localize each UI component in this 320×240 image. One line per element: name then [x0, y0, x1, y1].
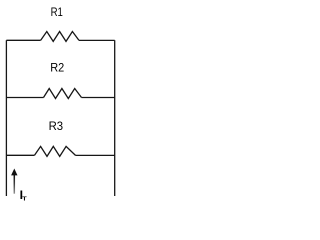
svg-text:R3: R3	[49, 119, 64, 133]
wire: right vertical bus	[114, 40, 116, 196]
wire: R2 left lead	[6, 97, 43, 99]
current arrow IT (points up)	[11, 169, 17, 194]
svg-text:T: T	[22, 197, 27, 203]
wire: R1 left lead	[6, 39, 40, 41]
wire: R3 right lead	[76, 154, 115, 156]
label IT	[20, 188, 27, 202]
resistor R1	[41, 32, 79, 42]
wire: R1 right lead	[79, 39, 115, 41]
resistor R3	[35, 146, 76, 156]
resistor R2	[44, 89, 82, 99]
wire: R3 left lead	[6, 154, 34, 156]
wire: R2 right lead	[82, 97, 115, 99]
wire: left vertical bus	[5, 40, 7, 196]
svg-text:R2: R2	[50, 60, 64, 74]
svg-text:R1: R1	[51, 5, 63, 19]
